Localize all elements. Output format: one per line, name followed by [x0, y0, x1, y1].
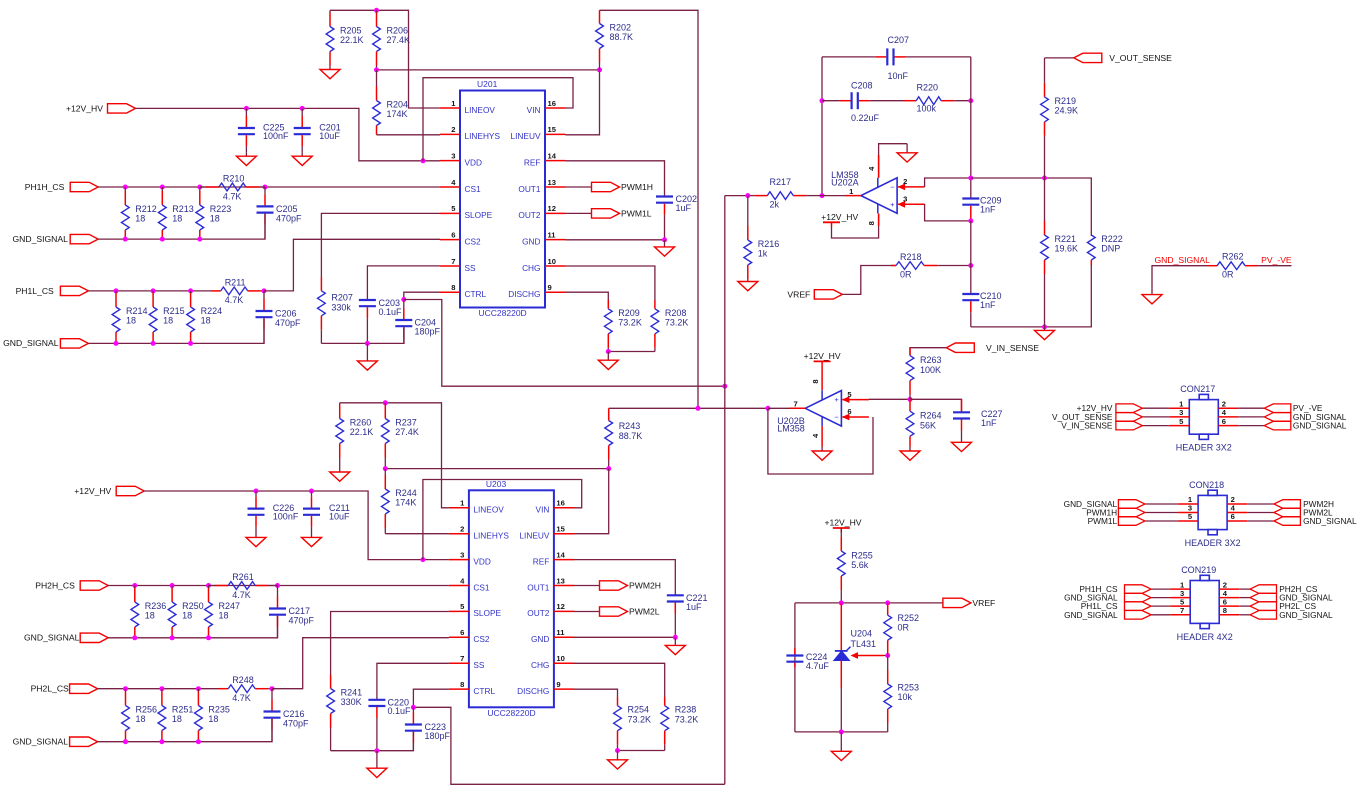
svg-text:CS1: CS1	[473, 582, 490, 592]
wire pin5 row to C227	[910, 399, 962, 411]
ground	[897, 144, 917, 162]
svg-text:16: 16	[548, 99, 556, 108]
node R218 right junction	[968, 263, 973, 268]
wire SLOPE pin5 to R241	[331, 612, 449, 676]
node C221 bottom junction	[673, 635, 678, 640]
wire C224 branch	[794, 603, 796, 732]
wire pin2 row to R221/R222 top	[971, 178, 1092, 236]
svg-text:CTRL: CTRL	[465, 289, 487, 299]
wire U202A pin8 to +12V	[832, 214, 879, 239]
svg-text:+: +	[890, 200, 895, 209]
svg-text:LINEUV: LINEUV	[519, 531, 549, 541]
node R220 right junction	[968, 98, 973, 103]
node junction	[206, 635, 211, 640]
svg-text:R202: R202	[610, 23, 632, 33]
capacitor C226	[248, 491, 299, 533]
svg-text:6: 6	[451, 230, 455, 239]
capacitor C208	[822, 81, 903, 124]
svg-text:R237: R237	[395, 418, 417, 428]
node R202 bottom junction	[597, 67, 602, 72]
svg-text:100nF: 100nF	[273, 512, 299, 522]
svg-text:+12V_HV: +12V_HV	[804, 351, 841, 361]
capacitor C204	[395, 300, 440, 344]
svg-text:SS: SS	[473, 660, 485, 670]
label U202B/LM358	[777, 416, 805, 433]
wire feedback left bus	[821, 57, 823, 196]
svg-text:CON218: CON218	[1189, 480, 1224, 490]
node PWM2H flag	[600, 581, 662, 591]
svg-text:HEADER 4X2: HEADER 4X2	[1177, 632, 1233, 642]
svg-text:0R: 0R	[900, 269, 912, 279]
capacitor C225	[238, 108, 289, 152]
wire U202A out to R217 junction	[822, 195, 845, 197]
wire R204 to pin2	[377, 134, 441, 136]
svg-text:18: 18	[210, 214, 220, 224]
wire R248 to CS2 pin6	[272, 638, 449, 689]
wire R202 junction to pin15	[566, 70, 600, 135]
node R213 top	[160, 185, 165, 190]
resistor R206	[373, 10, 410, 70]
svg-text:R215: R215	[163, 306, 185, 316]
node junction	[196, 739, 201, 744]
resistor R263	[906, 348, 941, 400]
svg-text:REF: REF	[524, 157, 541, 167]
svg-text:R251: R251	[172, 705, 194, 715]
svg-text:12: 12	[548, 204, 556, 213]
ground	[812, 447, 832, 461]
resistor R253	[884, 656, 919, 732]
wire C209 to R218 row	[970, 221, 972, 293]
svg-text:C205: C205	[276, 204, 298, 214]
wire CTRL branch to bus	[404, 300, 725, 387]
resistor R223	[196, 187, 231, 239]
svg-text:73.2K: 73.2K	[618, 317, 642, 327]
capacitor C217	[269, 586, 315, 638]
svg-text:11: 11	[556, 628, 565, 637]
wire GND_SIGNAL rail under PH2H	[108, 616, 277, 638]
connector CON217 HEADER 3X2	[1052, 384, 1347, 453]
svg-text:19.6K: 19.6K	[1055, 244, 1079, 254]
svg-text:TL431: TL431	[851, 639, 877, 649]
node pin3 row junction	[968, 218, 973, 223]
svg-text:22.1K: 22.1K	[340, 35, 364, 45]
node PH2H_CS flag	[80, 581, 108, 590]
wire U202A pin4 red stub	[878, 155, 880, 178]
node PWM2L flag	[600, 607, 660, 617]
node VREF flag	[787, 290, 842, 300]
wire U202A pin4 to ground	[879, 144, 908, 178]
svg-text:SLOPE: SLOPE	[473, 608, 501, 618]
wire CTRL pin8 to C223	[413, 689, 449, 707]
svg-text:R256: R256	[136, 705, 158, 715]
wire R241/C220/C223 ground rail	[331, 732, 414, 751]
wire GND_SIGNAL rail under PH2L	[98, 719, 272, 742]
node C205 top	[263, 185, 268, 190]
svg-text:18: 18	[145, 611, 155, 621]
node CTRL2 junction	[411, 705, 416, 710]
svg-text:SS: SS	[465, 263, 477, 273]
svg-text:+12V_HV: +12V_HV	[66, 104, 103, 114]
wire R207/C203/C204 ground rail	[321, 327, 404, 343]
node GND_SIGNAL flag	[70, 737, 98, 746]
node PH1L_CS flag	[60, 286, 88, 295]
svg-text:9: 9	[548, 283, 552, 292]
node VDD2 junction	[420, 557, 425, 562]
wire OUT2 pin12 to flag	[574, 611, 599, 613]
wire V_IN_SENSE to R263	[910, 348, 946, 355]
wire +12V_HV rail to VDD pin3	[136, 108, 441, 160]
node C217 top	[275, 583, 280, 588]
label LM358/U202A	[831, 170, 859, 187]
svg-text:1: 1	[460, 499, 465, 508]
svg-text:73.2K: 73.2K	[628, 714, 652, 724]
svg-text:470pF: 470pF	[275, 318, 301, 328]
wire R238 bottom to R254 bottom	[618, 750, 665, 752]
wire TL431 bottom rail	[795, 731, 888, 733]
wire CHG pin10 to R238	[574, 663, 665, 697]
wire U202B pin5 to R263/R264	[869, 398, 910, 400]
svg-text:R217: R217	[770, 177, 792, 187]
resistor R237	[381, 403, 418, 469]
svg-text:7: 7	[793, 400, 797, 409]
svg-text:2: 2	[903, 177, 907, 186]
svg-text:OUT2: OUT2	[527, 608, 550, 618]
wire VIN pin16 loop to VDD	[423, 78, 573, 161]
node junction	[114, 341, 119, 346]
svg-text:4.7K: 4.7K	[232, 590, 251, 600]
wire R244 to pin2	[385, 533, 449, 535]
ground	[330, 465, 350, 481]
node PH2L_CS flag	[70, 684, 98, 693]
svg-text:R247: R247	[219, 601, 241, 611]
svg-text:CON219: CON219	[1181, 565, 1216, 575]
svg-text:18: 18	[135, 214, 145, 224]
node R256 top	[123, 686, 128, 691]
resistor R247	[205, 586, 240, 638]
wire SS pin7 to C203	[367, 266, 440, 299]
resistor R264	[906, 399, 941, 446]
svg-text:LM358: LM358	[777, 423, 805, 433]
svg-text:R243: R243	[619, 421, 641, 431]
svg-text:4: 4	[1222, 408, 1227, 417]
resistor R209	[604, 300, 641, 352]
svg-text:VDD: VDD	[473, 556, 491, 566]
svg-text:5: 5	[847, 390, 852, 399]
svg-text:R218: R218	[900, 252, 922, 262]
wire TL431 anode to rail	[840, 688, 842, 732]
capacitor C227	[953, 399, 1003, 437]
wire bus2 corner to R217	[725, 195, 748, 197]
svg-text:CHG: CHG	[522, 263, 540, 273]
svg-text:R262: R262	[1222, 251, 1244, 261]
svg-text:PH2H_CS: PH2H_CS	[35, 580, 75, 590]
node PH1H_CS flag	[70, 182, 98, 191]
svg-text:R236: R236	[145, 601, 167, 611]
node R215 top	[151, 288, 156, 293]
svg-text:VDD: VDD	[465, 157, 483, 167]
wire OUT1 pin13 to flag	[574, 585, 599, 587]
svg-text:88.7K: 88.7K	[619, 431, 643, 441]
wire DISCHG pin9 to R254	[574, 689, 617, 697]
resistor R256	[122, 689, 157, 742]
svg-text:2: 2	[1222, 399, 1226, 408]
ground	[608, 751, 628, 770]
svg-text:LINEUV: LINEUV	[511, 131, 541, 141]
connector CON219 HEADER 4X2	[1064, 565, 1333, 642]
ground	[302, 533, 322, 547]
resistor R207	[318, 277, 353, 343]
resistor R222	[1087, 234, 1122, 265]
svg-text:24.9K: 24.9K	[1055, 106, 1079, 116]
node R214 top	[114, 288, 119, 293]
node GND_SIGNAL flag	[60, 339, 88, 348]
svg-text:C206: C206	[275, 309, 297, 319]
resistor R235	[195, 689, 230, 742]
svg-text:470pF: 470pF	[289, 616, 315, 626]
wire U202A pin3 to C209 bottom	[925, 204, 971, 221]
node R252 top junction	[885, 600, 890, 605]
svg-text:18: 18	[208, 714, 218, 724]
svg-text:GND_SIGNAL: GND_SIGNAL	[13, 737, 69, 747]
svg-text:R252: R252	[898, 613, 920, 623]
svg-text:V_OUT_SENSE: V_OUT_SENSE	[1109, 53, 1172, 63]
capacitor C206	[256, 291, 302, 344]
wire bottom CTRL bus	[413, 707, 724, 784]
svg-text:R255: R255	[851, 551, 873, 561]
svg-text:8: 8	[460, 680, 464, 689]
ground	[665, 637, 685, 654]
wire GND_SIGNAL rail under PH1L	[88, 318, 264, 343]
svg-text:3: 3	[1179, 408, 1183, 417]
svg-text:R205: R205	[340, 26, 362, 36]
svg-text:R208: R208	[665, 308, 687, 318]
resistor R202	[596, 10, 633, 70]
resistor R218	[891, 252, 971, 279]
wire TL431 anode	[840, 661, 842, 689]
svg-text:GND_SIGNAL: GND_SIGNAL	[12, 234, 68, 244]
svg-text:R244: R244	[395, 488, 417, 498]
IC U201 UCC28220D	[440, 79, 566, 318]
svg-text:R250: R250	[182, 601, 204, 611]
IC U203 UCC28220D	[449, 479, 575, 718]
op-amp U202A	[845, 166, 925, 225]
resistor R244	[381, 469, 416, 534]
svg-text:470pF: 470pF	[276, 213, 302, 223]
svg-text:18: 18	[136, 714, 146, 724]
wire REF pin14 to C202	[566, 161, 665, 196]
wire VIN pin16 loop to VDD	[423, 480, 582, 560]
svg-text:5: 5	[1180, 597, 1185, 606]
node GND_SIGNAL flag	[70, 234, 98, 243]
svg-text:18: 18	[172, 214, 182, 224]
node C201 top	[300, 106, 305, 111]
resistor R252	[884, 603, 919, 656]
svg-text:5: 5	[1179, 417, 1184, 426]
svg-text:HEADER 3X2: HEADER 3X2	[1176, 443, 1232, 453]
wire OUT2 pin12 to flag	[566, 212, 592, 214]
svg-text:1: 1	[849, 187, 854, 196]
svg-text:3: 3	[451, 151, 455, 160]
svg-text:R222: R222	[1101, 234, 1123, 244]
svg-text:100K: 100K	[920, 365, 941, 375]
capacitor C202	[656, 194, 697, 240]
svg-text:470pF: 470pF	[283, 719, 309, 729]
node junction	[197, 237, 202, 242]
resistor R236	[131, 586, 166, 638]
svg-text:6: 6	[1231, 512, 1235, 521]
svg-text:+12V_HV: +12V_HV	[821, 212, 858, 222]
node U202B out junction	[765, 406, 770, 411]
node junction	[123, 237, 128, 242]
svg-text:13: 13	[556, 576, 564, 585]
transistor U204 TL431	[834, 628, 876, 660]
svg-text:OUT2: OUT2	[518, 210, 541, 220]
svg-text:1: 1	[451, 99, 456, 108]
svg-text:1: 1	[1179, 399, 1184, 408]
svg-text:0R: 0R	[1222, 270, 1234, 280]
wire SS pin7 to C220	[377, 663, 449, 699]
ground	[900, 447, 920, 461]
svg-text:174K: 174K	[395, 498, 416, 508]
capacitor C223	[405, 707, 451, 750]
wire R211 to CS2 pin6	[264, 239, 440, 291]
node bus junction	[722, 384, 727, 389]
wire GND pin11	[574, 636, 675, 638]
node +12V_HV flag	[108, 104, 136, 113]
wire LINEUV net R206-R202	[377, 69, 600, 71]
capacitor C207	[822, 35, 971, 81]
svg-text:UCC28220D: UCC28220D	[479, 308, 527, 318]
capacitor C224	[786, 648, 829, 671]
resistor R208	[651, 300, 688, 352]
resistor R216	[744, 196, 779, 279]
connector CON218 HEADER 3X2	[1064, 480, 1357, 548]
svg-text:R204: R204	[387, 100, 409, 110]
wire U202B pin8 red stub	[821, 366, 823, 390]
svg-text:1uF: 1uF	[686, 602, 702, 612]
node R212 top	[123, 185, 128, 190]
svg-text:R209: R209	[618, 308, 640, 318]
resistor R213	[158, 187, 193, 239]
svg-text:15: 15	[556, 525, 565, 534]
svg-text:VIN: VIN	[527, 105, 541, 115]
node V_OUT_SENSE flag	[1074, 53, 1102, 62]
ground	[246, 533, 266, 547]
node C203 bottom junction	[365, 341, 370, 346]
svg-text:R220: R220	[917, 82, 939, 92]
wire R208 bottom to R209 bottom	[608, 351, 655, 353]
wire PH1L_CS rail	[88, 290, 211, 292]
svg-text:330K: 330K	[341, 697, 362, 707]
svg-text:R264: R264	[920, 410, 942, 420]
resistor R219	[1041, 58, 1078, 178]
capacitor C216	[264, 689, 310, 742]
svg-text:22.1K: 22.1K	[350, 427, 374, 437]
resistor R211	[211, 277, 264, 305]
svg-text:PWM2H: PWM2H	[629, 581, 661, 591]
node junction	[123, 739, 128, 744]
svg-text:C217: C217	[289, 606, 311, 616]
resistor R250	[168, 586, 203, 638]
svg-text:7: 7	[451, 257, 455, 266]
svg-text:15: 15	[548, 125, 557, 134]
wire PH2L_CS rail	[98, 688, 218, 690]
svg-text:10uF: 10uF	[329, 512, 350, 522]
svg-text:330k: 330k	[331, 303, 351, 313]
svg-text:100nF: 100nF	[263, 131, 289, 141]
svg-text:DISCHG: DISCHG	[517, 686, 549, 696]
node PWM1H flag	[592, 182, 654, 192]
svg-text:VIN: VIN	[536, 505, 550, 515]
svg-text:PV_-VE: PV_-VE	[1261, 255, 1292, 265]
svg-text:LINEOV: LINEOV	[465, 105, 496, 115]
svg-text:LINEOV: LINEOV	[473, 505, 504, 515]
ground	[655, 240, 675, 256]
svg-text:88.7K: 88.7K	[610, 32, 634, 42]
node junction	[160, 237, 165, 242]
svg-text:73.2K: 73.2K	[675, 714, 699, 724]
svg-text:27.4K: 27.4K	[395, 427, 419, 437]
ground	[367, 751, 387, 778]
svg-text:VREF: VREF	[787, 290, 810, 300]
svg-text:U204: U204	[851, 628, 873, 638]
capacitor C209	[962, 196, 1001, 221]
svg-text:REF: REF	[533, 556, 550, 566]
resistor R221	[1041, 178, 1078, 327]
resistor R238	[661, 697, 698, 751]
svg-text:C207: C207	[888, 35, 910, 45]
resistor R205	[326, 10, 363, 65]
wire bottom rail R221/R222	[971, 264, 1092, 327]
svg-text:HEADER 3X2: HEADER 3X2	[1185, 538, 1241, 548]
wire PH1H_CS rail to CS1 pin4	[98, 186, 440, 188]
node R224 top	[188, 288, 193, 293]
svg-text:GND_SIGNAL: GND_SIGNAL	[1155, 255, 1211, 265]
node R209 gnd junction	[606, 349, 611, 354]
svg-text:R221: R221	[1055, 234, 1077, 244]
wire U202A pin8 red stub	[878, 214, 880, 227]
wire GND_SIGNAL to R262	[1152, 266, 1208, 294]
svg-text:PH1L_CS: PH1L_CS	[16, 286, 54, 296]
node V_IN_SENSE flag	[946, 343, 974, 352]
wire +12V_HV rail to VDD pin3	[144, 491, 449, 560]
svg-text:PWM1L: PWM1L	[621, 209, 652, 219]
wire LINEUV2 net R237-R243	[385, 468, 608, 470]
svg-text:10nF: 10nF	[888, 71, 909, 81]
node junction	[151, 341, 156, 346]
resistor R215	[149, 291, 184, 344]
wire DISCHG pin9 to R209	[566, 292, 609, 300]
svg-text:GND_SIGNAL: GND_SIGNAL	[3, 338, 59, 348]
wire bus2 vertical	[724, 196, 726, 785]
svg-text:6: 6	[460, 628, 464, 637]
svg-text:R210: R210	[223, 174, 245, 184]
node R237 top junction	[383, 400, 388, 405]
svg-text:6: 6	[1222, 417, 1226, 426]
capacitor C201	[294, 108, 341, 152]
node R250 top	[170, 583, 175, 588]
svg-text:6: 6	[1223, 597, 1227, 606]
node C211 top	[309, 489, 314, 494]
svg-text:4: 4	[451, 178, 456, 187]
wire VREF row	[795, 602, 943, 604]
wire U202B out	[768, 407, 790, 409]
node R237 bottom junction	[383, 466, 388, 471]
svg-text:R206: R206	[387, 26, 409, 36]
svg-text:CS2: CS2	[473, 634, 490, 644]
svg-text:R213: R213	[172, 204, 194, 214]
power +12V_HV	[804, 351, 841, 366]
